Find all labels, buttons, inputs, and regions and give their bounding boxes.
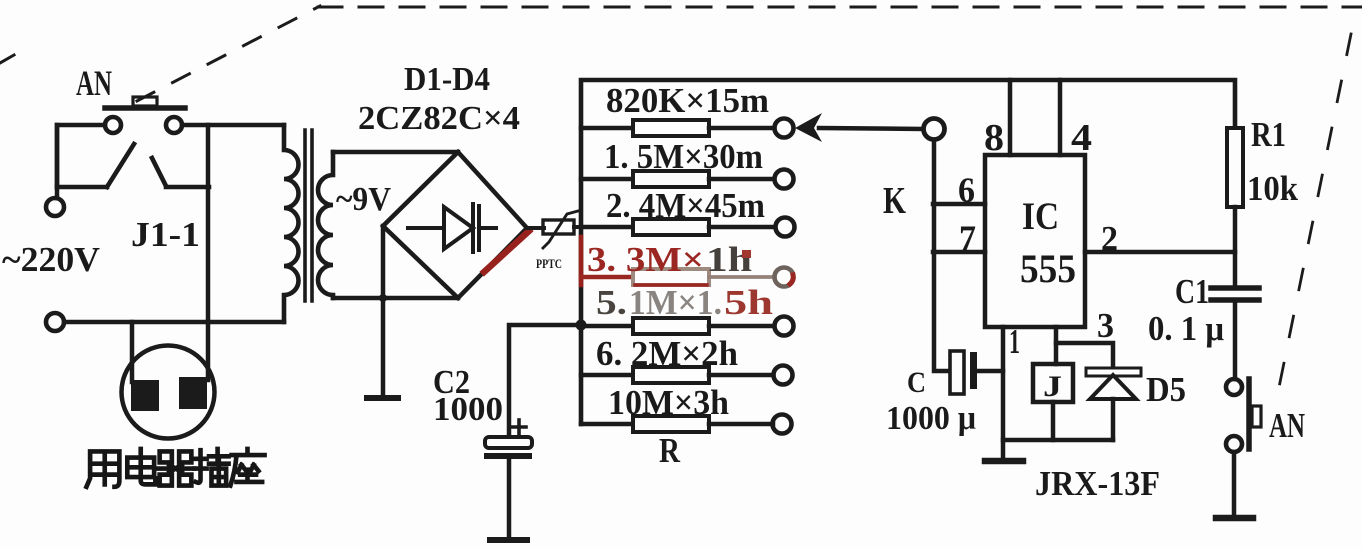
transformer core — [305, 130, 312, 301]
svg-text:D1-D4: D1-D4 — [404, 61, 490, 98]
diode D5 — [1086, 368, 1141, 440]
wire R1 to C1 — [1233, 207, 1238, 286]
svg-text:~220V: ~220V — [2, 240, 100, 279]
transformer primary winding — [284, 125, 299, 322]
resistor R row2 1.5M x 30m — [581, 171, 773, 187]
svg-text:J1-1: J1-1 — [131, 215, 200, 254]
enclosure dashed line top horizontal — [318, 6, 1362, 9]
wire C1 to AN button — [1233, 300, 1238, 379]
resistor R row3 2.4M x 45m — [581, 219, 773, 235]
capacitor C2 — [484, 437, 532, 459]
svg-text:5.: 5. — [596, 283, 627, 322]
enclosure dashed diagonal right side — [1276, 34, 1351, 402]
red ink on row4 terminal circle — [790, 275, 793, 284]
terminal circle AN right bottom — [1226, 436, 1242, 452]
resistor R row1 820K x 15m — [581, 120, 773, 136]
svg-text:5h: 5h — [724, 283, 773, 322]
capacitor C (1000u) — [950, 351, 1003, 394]
svg-text:~9V: ~9V — [336, 181, 391, 218]
relay coil J — [1033, 364, 1073, 402]
pin 4 wire — [1058, 80, 1063, 155]
svg-text:IC: IC — [1022, 195, 1059, 238]
wire from AN left pole to 220V top terminal — [57, 125, 105, 198]
svg-text:R1: R1 — [1251, 115, 1286, 154]
svg-text:3. 3M×: 3. 3M× — [587, 240, 704, 279]
junction dot bus/C2 — [576, 320, 587, 331]
red pen mark on bridge lower-right edge — [484, 231, 529, 272]
svg-text:2. 4M×45m: 2. 4M×45m — [606, 186, 765, 225]
terminal circle row5 — [775, 317, 794, 336]
label 用电器插座 (appliance socket, drawn glyphs) — [86, 449, 264, 487]
svg-text:K: K — [883, 180, 906, 222]
wire mains to socket left contact — [130, 322, 135, 382]
terminal circle right pole of AN — [166, 117, 182, 133]
terminal circle row6 — [774, 366, 793, 385]
ground below C2 — [490, 459, 527, 540]
ground below pin 1 — [985, 458, 1023, 465]
pin 1 wire to ground — [1001, 327, 1006, 459]
capacitor C2 polarity plus — [512, 420, 526, 434]
wire secondary top to bridge — [333, 150, 458, 155]
svg-text:7: 7 — [959, 218, 976, 258]
resistor R row6 6.2M x 2h — [581, 367, 773, 383]
svg-text:JRX-13F: JRX-13F — [1035, 464, 1160, 503]
svg-text:8: 8 — [984, 117, 1004, 159]
enclosure dashed diagonal (top-left, to AN button) — [137, 6, 320, 101]
svg-text:555: 555 — [1020, 246, 1076, 291]
svg-text:6: 6 — [958, 170, 975, 210]
svg-text:2CZ82C×4: 2CZ82C×4 — [358, 100, 520, 137]
svg-text:10M×3h: 10M×3h — [608, 383, 729, 422]
top supply bus wire — [581, 80, 1235, 424]
resistor R row5 5.1M x 1.5h — [581, 318, 773, 334]
svg-text:1. 5M×30m: 1. 5M×30m — [604, 137, 763, 176]
ground from bridge minus output — [367, 226, 398, 398]
terminal circle row2 — [775, 170, 794, 189]
transformer secondary winding — [318, 152, 333, 298]
relay J bottom lead — [1051, 402, 1056, 440]
svg-text:4: 4 — [1071, 117, 1092, 159]
wire J/D5 bottoms to ground line — [1003, 438, 1113, 443]
pin 3 wire to relay and D5 — [1056, 327, 1113, 367]
pin 8 wire — [1008, 80, 1013, 155]
svg-text:1000 μ: 1000 μ — [886, 400, 976, 437]
socket contact left — [131, 380, 159, 411]
capacitor C1 — [1211, 288, 1259, 300]
terminal circle row3 — [776, 218, 795, 237]
svg-text:C1: C1 — [1175, 272, 1209, 311]
wire vertical mains line through J1-1 to socket right contact — [206, 125, 211, 380]
svg-text:1h: 1h — [706, 240, 752, 279]
svg-text:820K×15m: 820K×15m — [606, 81, 769, 120]
svg-text:J: J — [1043, 370, 1062, 403]
svg-text:10k: 10k — [1247, 169, 1298, 208]
enclosure dash stub at left edge — [0, 55, 14, 63]
terminal circle ~220V top — [46, 198, 64, 216]
wire resistor bus to C2 — [509, 325, 581, 436]
svg-text:C: C — [907, 366, 926, 399]
relay contact J1-1 right blade — [152, 158, 209, 187]
pin 2 wire — [1085, 250, 1235, 255]
wire from AN right pole to transformer primary top — [182, 123, 284, 128]
svg-text:0. 1 μ: 0. 1 μ — [1148, 309, 1224, 348]
svg-text:3: 3 — [1097, 306, 1114, 345]
svg-text:D5: D5 — [1146, 370, 1186, 409]
socket contact right — [179, 377, 207, 409]
pin 6 wire — [933, 202, 985, 207]
svg-text:1: 1 — [1009, 322, 1020, 361]
relay contact J1-1 left blade — [57, 125, 134, 187]
wire arrow to K common — [819, 128, 923, 129]
wire secondary bottom to bridge — [333, 296, 458, 301]
red ink dot above row5 label — [742, 250, 751, 258]
pin 7 wire — [933, 250, 985, 255]
terminal circle left pole of AN — [105, 117, 121, 133]
resistor R row4 3.3M x 1h (red overtrace) — [581, 269, 773, 285]
svg-text:PPTC: PPTC — [536, 256, 562, 271]
wire AN to ground — [1232, 452, 1237, 516]
resistor R row7 10M x 3h — [581, 416, 773, 432]
pushbutton AN (right) bar and actuator — [1249, 379, 1261, 449]
pushbutton AN (left) bar and actuator — [105, 97, 185, 108]
wire bridge plus output to PPTC — [527, 226, 544, 230]
diode symbol inside bridge — [408, 204, 496, 252]
svg-text:1000: 1000 — [433, 391, 503, 428]
red overtraced bus segment rows 3-5 — [579, 237, 584, 285]
junction at bridge bottom crossing — [379, 294, 387, 302]
wire K common down to pins 6/7 and capacitor C — [934, 140, 949, 371]
svg-text:AN: AN — [1269, 406, 1305, 445]
svg-text:AN: AN — [76, 63, 112, 103]
terminal circle row4 (faded) — [775, 268, 794, 287]
op-amp / timer IC 555 U1 — [985, 155, 1085, 327]
bridge rectifier D1-D4 diamond — [383, 152, 527, 298]
terminal circle ~220V bottom — [46, 313, 64, 331]
svg-text:2: 2 — [1101, 219, 1118, 258]
svg-text:R: R — [659, 431, 681, 470]
svg-text:1M×1.: 1M×1. — [629, 283, 722, 322]
wire PPTC to resistor bus — [574, 225, 584, 229]
svg-text:6. 2M×2h: 6. 2M×2h — [596, 334, 738, 373]
socket circle (appliance socket) — [122, 346, 215, 439]
rotary switch K wiper arrow — [795, 113, 822, 142]
terminal circle row1 — [775, 119, 794, 138]
fuse PPTC — [543, 211, 578, 248]
K common terminal circle — [924, 119, 945, 140]
wire bottom mains line — [64, 320, 284, 325]
resistor R1 — [1227, 128, 1243, 207]
terminal circle row7 — [773, 415, 792, 434]
terminal circle AN right top — [1226, 379, 1242, 395]
ground below AN right — [1216, 515, 1253, 522]
